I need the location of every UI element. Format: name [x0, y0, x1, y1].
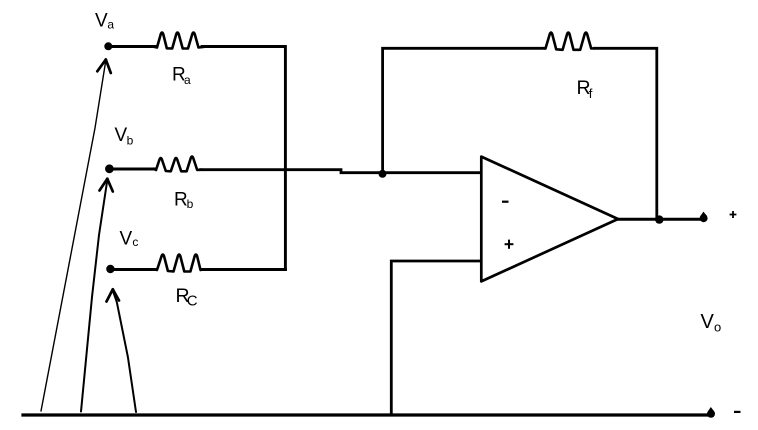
svg-text:C: C [187, 293, 198, 310]
svg-text:V: V [115, 125, 128, 146]
svg-text:c: c [132, 235, 138, 249]
svg-text:b: b [127, 133, 134, 147]
svg-text:V: V [95, 10, 108, 31]
svg-text:b: b [187, 197, 194, 211]
svg-text:o: o [714, 320, 721, 335]
svg-text:V: V [701, 311, 715, 333]
svg-text:a: a [107, 17, 114, 31]
svg-text:a: a [184, 73, 191, 87]
svg-text:f: f [589, 86, 593, 101]
svg-text:V: V [120, 228, 133, 249]
